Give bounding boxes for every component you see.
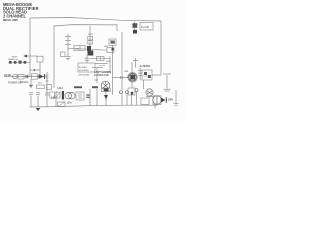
svg-text:B+ 485V: B+ 485V [79, 67, 87, 69]
svg-text:AC IN: AC IN [4, 73, 11, 77]
svg-text:LAST SHOWN: LAST SHOWN [94, 70, 111, 74]
svg-text:=== ==: === == [99, 65, 106, 67]
svg-text:EXPIRED 1998: EXPIRED 1998 [94, 75, 109, 77]
svg-text:475V 450V: 475V 450V [79, 70, 89, 72]
svg-text:100k: 100k [67, 102, 73, 105]
svg-text:REV.F 2/95: REV.F 2/95 [3, 18, 18, 22]
svg-text:2.2k: 2.2k [51, 97, 56, 100]
svg-text:1N4007 x4: 1N4007 x4 [8, 59, 19, 61]
svg-text:4 x 6L6GC: 4 x 6L6GC [140, 65, 151, 68]
svg-text:OT: OT [144, 74, 148, 77]
svg-text:0u48: 0u48 [141, 25, 149, 29]
svg-text:SLO: SLO [38, 83, 42, 85]
svg-text:4x6L6: 4x6L6 [57, 87, 64, 90]
svg-text:-25V: -25V [168, 98, 174, 102]
svg-text:375 350 300: 375 350 300 [79, 74, 90, 76]
svg-text:120VAC: 120VAC [20, 81, 29, 84]
svg-text:STBY: STBY [12, 57, 18, 59]
